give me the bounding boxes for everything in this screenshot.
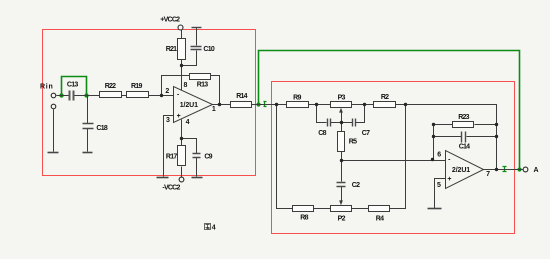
svg-text:1/2U1: 1/2U1	[180, 102, 198, 109]
svg-text:R22: R22	[105, 83, 116, 90]
svg-text:R5: R5	[349, 138, 357, 145]
svg-text:R13: R13	[197, 82, 208, 89]
svg-text:R23: R23	[458, 114, 469, 121]
svg-text:R14: R14	[236, 93, 247, 100]
svg-text:Rin: Rin	[40, 83, 54, 90]
svg-text:C14: C14	[459, 143, 470, 150]
svg-text:R9: R9	[293, 94, 301, 101]
svg-text:P3: P3	[338, 94, 346, 101]
svg-text:-VCC2: -VCC2	[162, 185, 180, 192]
svg-text:C10: C10	[203, 46, 214, 53]
svg-text:C9: C9	[204, 154, 212, 161]
svg-text:R2: R2	[381, 94, 389, 101]
svg-text:R19: R19	[131, 83, 142, 90]
svg-text:R8: R8	[300, 215, 308, 222]
svg-text:+VCC2: +VCC2	[160, 17, 180, 24]
svg-text:C7: C7	[362, 130, 370, 137]
svg-text:C13: C13	[67, 81, 78, 88]
svg-text:R17: R17	[166, 154, 177, 161]
svg-text:A: A	[533, 167, 538, 174]
svg-text:P2: P2	[338, 216, 346, 223]
svg-text:C18: C18	[96, 125, 107, 132]
svg-text:2/2U1: 2/2U1	[452, 167, 470, 174]
svg-text:R21: R21	[166, 46, 177, 53]
svg-text:C8: C8	[318, 130, 326, 137]
svg-text:R4: R4	[376, 216, 384, 223]
svg-text:C2: C2	[352, 182, 360, 189]
